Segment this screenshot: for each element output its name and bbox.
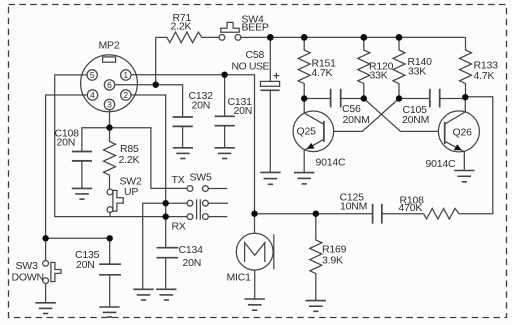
svg-text:9014C: 9014C	[426, 158, 457, 170]
junction node bus/R140	[396, 34, 403, 41]
switch SW2	[107, 176, 142, 217]
junction node bus/C58	[267, 34, 274, 41]
capacitor C108	[55, 127, 93, 188]
resistor R120	[358, 37, 394, 98]
resistor R151	[298, 37, 336, 98]
SW5 actuator bars	[196, 199, 198, 219]
wire pin3 down	[109, 110, 111, 128]
wire pin3 node left to C108	[82, 128, 110, 152]
junction node bus/R120	[360, 34, 367, 41]
junction node R169	[313, 211, 319, 217]
junction node SW5 RX row	[163, 213, 169, 219]
svg-text:20N: 20N	[183, 257, 202, 269]
MP2 pin 3	[104, 99, 114, 109]
svg-text:2.2K: 2.2K	[171, 21, 192, 33]
svg-text:UP: UP	[124, 186, 138, 198]
svg-text:33K: 33K	[370, 70, 388, 82]
resistor R71	[156, 12, 220, 85]
wire audio line	[255, 213, 373, 215]
junction node pin3	[106, 124, 112, 130]
svg-text:BEEP: BEEP	[242, 22, 269, 34]
wire middle row to ground	[143, 203, 166, 289]
junction node R71/pin6	[153, 82, 159, 88]
capacitor C131	[215, 75, 253, 148]
svg-text:6: 6	[107, 80, 112, 90]
svg-text:RX: RX	[172, 221, 186, 233]
wire pin1 right and down to MIC node	[132, 75, 255, 214]
wire pin5 left and down to SW2 bottom rail	[55, 75, 166, 217]
junction node bus/R151	[301, 34, 308, 41]
capacitor C105	[399, 89, 465, 126]
svg-text:3.9K: 3.9K	[322, 255, 343, 267]
switch SW5 middle row	[166, 200, 228, 206]
junction node SW5 middle	[163, 200, 169, 206]
svg-text:MP2: MP2	[99, 39, 120, 51]
svg-text:2.2K: 2.2K	[119, 154, 140, 166]
wire pin4 row to C135	[46, 237, 110, 239]
wire pin2 right and down to SW5 middle row	[132, 95, 166, 203]
svg-text:C134: C134	[179, 244, 204, 256]
svg-text:20N: 20N	[192, 99, 211, 111]
switch SW3	[12, 260, 62, 303]
wire cross coupling left to Q26 base	[364, 99, 445, 132]
ground under C108	[72, 188, 92, 199]
wire pin6 right to C132	[115, 85, 183, 117]
junction node R140/C105	[396, 95, 402, 101]
resistor R85	[104, 128, 140, 189]
svg-text:9014C: 9014C	[316, 156, 347, 168]
MP2 pin 5	[87, 70, 97, 80]
svg-text:3: 3	[107, 100, 112, 110]
resistor R133	[460, 37, 499, 97]
connector MP2	[81, 39, 138, 111]
transistor Q25	[293, 99, 346, 173]
ground under Q26	[454, 171, 474, 182]
svg-text:33K: 33K	[408, 66, 426, 78]
svg-text:SW5: SW5	[190, 172, 213, 184]
ground under C135	[99, 307, 119, 317]
ground under Q25	[294, 173, 314, 184]
svg-text:20N: 20N	[76, 259, 95, 271]
wire top bus	[241, 36, 466, 38]
svg-text:DOWN: DOWN	[12, 271, 44, 283]
switch SW5 RX row	[166, 214, 228, 233]
ground under middle row branch	[133, 289, 153, 300]
switch SW5 contacts TX row	[172, 172, 228, 192]
capacitor C56	[304, 89, 370, 126]
svg-text:MIC1: MIC1	[227, 272, 252, 284]
svg-text:4.7K: 4.7K	[312, 67, 333, 79]
ground under C134	[156, 289, 176, 300]
wire pin4 left and down to SW3	[46, 95, 87, 261]
svg-text:470K: 470K	[399, 202, 423, 214]
ground under C58	[260, 172, 280, 184]
junction node Q25 collector	[301, 95, 307, 101]
svg-text:Q25: Q25	[297, 126, 317, 138]
ground under C132	[173, 148, 193, 159]
capacitor C135	[75, 238, 121, 306]
microphone MIC1	[227, 214, 274, 299]
svg-text:4.7K: 4.7K	[474, 70, 495, 82]
wire cross coupling right to Q25 base	[324, 99, 399, 132]
ground under SW3	[35, 303, 55, 314]
resistor R140	[393, 37, 432, 98]
svg-text:2: 2	[123, 90, 128, 100]
svg-text:1: 1	[123, 70, 128, 80]
ground under C131	[215, 148, 235, 159]
svg-text:10NM: 10NM	[340, 201, 367, 213]
svg-text:C58: C58	[246, 49, 265, 61]
svg-text:R85: R85	[120, 143, 139, 155]
svg-text:NO USE: NO USE	[232, 60, 270, 72]
ground under R169	[306, 301, 326, 312]
wire pin3 node right and down to TX contact	[110, 128, 187, 189]
svg-text:4: 4	[90, 90, 95, 100]
svg-text:20N: 20N	[234, 105, 253, 117]
svg-text:20N: 20N	[57, 136, 76, 148]
capacitor C58	[232, 37, 280, 172]
MP2 pin 4	[87, 90, 97, 100]
svg-text:Q26: Q26	[453, 126, 473, 138]
svg-text:20NM: 20NM	[402, 114, 429, 126]
wire feedback to Q26 collector	[459, 97, 493, 214]
wire SW5 rows link	[165, 203, 167, 216]
svg-text:TX: TX	[172, 174, 185, 186]
capacitor C132	[173, 90, 214, 147]
junction node MIC1	[251, 211, 257, 217]
svg-text:5: 5	[90, 70, 95, 80]
MP2 pin 1	[121, 70, 131, 80]
junction node R120/C56	[361, 95, 367, 101]
ground under MIC1	[245, 299, 265, 310]
junction node C135	[107, 235, 113, 241]
junction node C131/pin1	[221, 72, 227, 78]
transistor Q26	[426, 97, 480, 170]
resistor R169	[310, 214, 347, 301]
capacitor C134	[157, 217, 204, 289]
svg-text:20NM: 20NM	[343, 114, 370, 126]
junction node pin4/SW3	[42, 235, 48, 241]
MP2 pin 2	[121, 90, 131, 100]
svg-text:SW3: SW3	[16, 260, 39, 272]
switch SW4	[219, 14, 269, 41]
junction node Q26 collector	[462, 94, 468, 100]
MP2 pin 6	[104, 80, 114, 90]
capacitor C125	[340, 192, 424, 224]
resistor R108	[399, 195, 460, 220]
